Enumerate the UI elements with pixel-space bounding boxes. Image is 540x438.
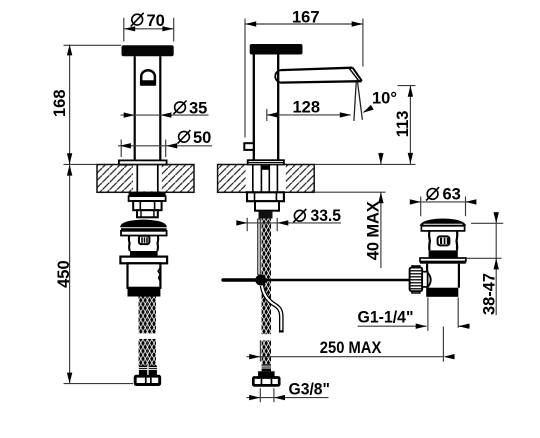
deck bottom ext right bbox=[314, 191, 385, 193]
svg-text:10°: 10° bbox=[372, 90, 397, 108]
arrow G3/8 right bbox=[274, 395, 285, 400]
dim 167 lines bbox=[245, 23, 363, 25]
arrow 128 left bbox=[267, 112, 278, 117]
arrow 168 bottom bbox=[67, 153, 72, 164]
drain tailpiece bbox=[426, 264, 428, 288]
arrow 450 top bbox=[67, 165, 72, 176]
dim O35 line bbox=[121, 114, 209, 116]
dim 113 lines bbox=[398, 85, 416, 87]
drain center line bbox=[442, 327, 444, 362]
braided hose (side) segment 2 bbox=[262, 340, 271, 364]
linkage ball joint bbox=[255, 275, 266, 286]
svg-text:70: 70 bbox=[147, 12, 165, 30]
drain cap dome bbox=[420, 218, 467, 225]
svg-text:250 MAX: 250 MAX bbox=[320, 339, 382, 357]
deck top ext right bbox=[314, 163, 415, 165]
hose bottom hex nut (front) bbox=[135, 376, 160, 384]
handle disc (front) bbox=[122, 45, 174, 56]
dim 168 ext top bbox=[64, 44, 122, 46]
arrow G1-1/4 left bbox=[416, 324, 427, 329]
arrow 113 top bbox=[408, 86, 413, 97]
horizontal linkage rod right bbox=[266, 279, 410, 281]
arrow O63 left bbox=[410, 199, 421, 204]
arrow 168 top bbox=[67, 44, 72, 55]
arrow O35 right bbox=[160, 112, 171, 117]
svg-text:63: 63 bbox=[443, 185, 461, 203]
arrow O70 left bbox=[124, 26, 135, 31]
deck top ext left bbox=[64, 163, 98, 165]
arrow 10deg leader bbox=[363, 105, 374, 113]
10 deg leader bbox=[364, 108, 372, 113]
svg-text:450: 450 bbox=[55, 260, 73, 288]
lower black band (front) bbox=[128, 288, 161, 297]
SIDE VIEW bbox=[218, 44, 410, 385]
arrow O50 right bbox=[166, 143, 177, 148]
dim 128 line bbox=[267, 114, 351, 116]
drain overflow window bbox=[438, 236, 450, 245]
counter deck (left) bbox=[97, 165, 194, 193]
DRAIN bbox=[410, 218, 467, 296]
label O70 bbox=[132, 14, 143, 25]
dim 168/450 vertical line bbox=[69, 45, 71, 384]
spout bottom line bbox=[281, 81, 362, 82]
hose elbow tube bbox=[262, 286, 281, 332]
mounting nut band bbox=[129, 196, 166, 201]
hose end fittings (front) bbox=[139, 366, 147, 377]
collar tier bbox=[137, 210, 158, 217]
arrow G3/8 left bbox=[249, 395, 260, 400]
spout window bottom bar bbox=[140, 80, 156, 86]
svg-text:40 MAX: 40 MAX bbox=[364, 201, 382, 260]
drain tailpiece thread band bbox=[426, 288, 458, 297]
svg-text:G3/8": G3/8" bbox=[289, 380, 331, 398]
svg-text:35: 35 bbox=[189, 100, 207, 118]
arrow 450 bottom bbox=[67, 373, 72, 384]
arrow O33.5 right bbox=[277, 220, 288, 225]
braided hoses segment 2 bbox=[139, 339, 148, 366]
arrow 40MAX top bbox=[378, 153, 383, 164]
dim G1-1/4 lines bbox=[358, 325, 427, 327]
escutcheon flange (side) bbox=[248, 160, 284, 165]
spout root arc bbox=[275, 70, 281, 83]
FRONT VIEW bbox=[97, 45, 194, 384]
linkage connector block bbox=[422, 272, 427, 287]
arrow O33.5 left bbox=[236, 220, 247, 225]
shank through deck (side) bbox=[252, 165, 254, 193]
svg-text:128: 128 bbox=[293, 99, 321, 117]
DIMENSIONS bbox=[64, 18, 504, 402]
dim 250MAX lines bbox=[247, 356, 444, 358]
dark adapter piece bbox=[259, 211, 273, 219]
arrow 38-47 top bbox=[494, 212, 499, 223]
dim O50 line bbox=[118, 145, 212, 147]
arrow 38-47 bottom bbox=[494, 258, 499, 269]
faucet body (side) bbox=[253, 55, 255, 161]
arrow G1-1/4 right bbox=[458, 324, 469, 329]
label O63 bbox=[427, 189, 438, 200]
spout window arch bbox=[141, 70, 155, 85]
arrow 128 right bbox=[340, 112, 351, 117]
faucet body (front) bbox=[134, 56, 136, 160]
svg-text:50: 50 bbox=[193, 129, 211, 147]
dim 450 bottom ext bbox=[64, 383, 134, 385]
braided hoses segment 1 bbox=[139, 297, 148, 334]
svg-text:G1-1/4": G1-1/4" bbox=[358, 308, 414, 326]
braided hose (side) segment 1 bbox=[262, 219, 271, 335]
svg-text:168: 168 bbox=[51, 89, 69, 117]
water angle lines bbox=[354, 82, 356, 121]
drain cap skirt bbox=[421, 226, 464, 231]
arrow O63 right bbox=[465, 199, 476, 204]
drain pull knob bbox=[244, 143, 254, 150]
arrow 113 bottom bbox=[408, 153, 413, 164]
arrow 40MAX bottom bbox=[378, 192, 383, 203]
white ring band bbox=[121, 231, 167, 236]
hex nut tier bbox=[133, 201, 161, 210]
arrow O70 right bbox=[162, 26, 173, 31]
lower flange (front) bbox=[120, 257, 167, 264]
drain flange ring bbox=[420, 258, 466, 262]
dim O63 lines bbox=[410, 201, 476, 203]
cartridge body sides bbox=[128, 236, 131, 252]
svg-text:113: 113 bbox=[394, 111, 412, 138]
ball socket arc bbox=[428, 273, 431, 288]
spout top line bbox=[281, 68, 353, 70]
dim O33.5 lines bbox=[237, 222, 342, 224]
drain black band bbox=[429, 250, 458, 258]
svg-text:38-47: 38-47 bbox=[481, 273, 499, 315]
black band under dome bbox=[121, 228, 167, 231]
pop-up pull rod bbox=[257, 219, 260, 275]
escutcheon flange (front) bbox=[119, 160, 167, 164]
lower cylinder (front) bbox=[128, 263, 161, 288]
drain body bbox=[428, 231, 431, 251]
arrow O50 left bbox=[120, 143, 131, 148]
arrow O35 left bbox=[124, 112, 135, 117]
hose crimp ferrule bbox=[262, 364, 271, 371]
black dome washer bbox=[120, 220, 167, 228]
label O33.5 bbox=[294, 210, 305, 221]
mounting nut top bar bbox=[129, 192, 166, 196]
arrow 250MAX right bbox=[444, 354, 455, 359]
handle lever (side) bbox=[250, 44, 303, 55]
locking hex nut (side) bbox=[247, 192, 284, 201]
dim O70 lines bbox=[124, 28, 174, 30]
arrow 167 left bbox=[245, 21, 256, 26]
spout tip chamfer bbox=[353, 68, 362, 81]
hose fitting neck (side) bbox=[258, 371, 275, 377]
label O35 bbox=[175, 102, 186, 113]
cartridge grille window bbox=[139, 236, 150, 244]
dim 38-47 lines bbox=[471, 222, 503, 224]
svg-text:167: 167 bbox=[292, 9, 320, 27]
arrow 167 right bbox=[352, 21, 363, 26]
label O50 bbox=[179, 131, 190, 142]
arrow 250MAX left bbox=[249, 354, 260, 359]
dim G3/8 lines bbox=[247, 397, 329, 399]
smaller nut (side) bbox=[255, 201, 279, 211]
hose hex nut (side) bbox=[253, 378, 279, 386]
linkage knurled knob bbox=[412, 266, 420, 269]
svg-text:33.5: 33.5 bbox=[311, 207, 342, 225]
horizontal linkage rod left bbox=[223, 278, 256, 281]
inner tube stub bbox=[262, 165, 270, 169]
shank through deck (front) bbox=[136, 165, 138, 193]
dim 40MAX lines bbox=[380, 153, 382, 164]
counter deck (right) bbox=[218, 165, 315, 193]
cartridge black band bbox=[130, 251, 158, 257]
